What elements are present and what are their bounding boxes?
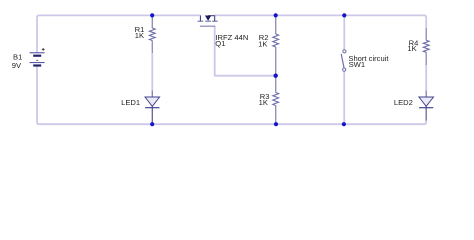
svg-text:LED2: LED2 bbox=[394, 98, 413, 107]
svg-text:9V: 9V bbox=[12, 61, 22, 70]
svg-text:B1: B1 bbox=[13, 53, 22, 62]
LED1 bbox=[145, 97, 160, 108]
wire R4 to LED2 bbox=[425, 65, 427, 91]
wire R1 bottom lead bbox=[151, 41, 153, 54]
wire LED1 cathode lead to bottom rail bbox=[151, 108, 153, 125]
switch SW1 bbox=[341, 50, 346, 71]
wire R3 bottom lead to bottom rail bbox=[275, 106, 277, 125]
wire R4 bottom lead bbox=[425, 52, 427, 65]
wire top-left rail from battery plus up and across to Q1 drain bbox=[37, 15, 200, 52]
wire R1 to LED1 bbox=[151, 53, 153, 91]
resistor R1 bbox=[149, 28, 155, 41]
node junction bottom rail at R3 bbox=[274, 122, 278, 126]
wire gate of Q1 down and over to R2/R3 node bbox=[215, 26, 276, 75]
resistor R3 bbox=[273, 93, 279, 106]
wire node to R3 top lead bbox=[275, 76, 277, 93]
wire R1 column: rail to R1 top bbox=[151, 15, 153, 28]
svg-text:Q1: Q1 bbox=[215, 39, 225, 48]
battery B1 bbox=[30, 48, 45, 66]
svg-text:1K: 1K bbox=[258, 39, 267, 48]
wire rail to SW1 top terminal bbox=[343, 15, 345, 49]
wire rail to R2 top lead bbox=[275, 15, 277, 34]
node junction top rail at SW1 bbox=[342, 13, 346, 17]
svg-text:LED1: LED1 bbox=[121, 98, 140, 107]
svg-text:SW1: SW1 bbox=[349, 60, 365, 69]
svg-text:1K: 1K bbox=[259, 98, 268, 107]
wire SW1 bottom terminal to bottom rail bbox=[343, 71, 345, 124]
wire LED2 cathode lead bbox=[425, 108, 427, 121]
wire R2 bottom lead to node bbox=[275, 47, 277, 76]
node junction gate R2/R3 bbox=[274, 74, 278, 78]
node junction top rail at R1 bbox=[150, 13, 154, 17]
resistor R4 bbox=[423, 40, 429, 52]
node junction bottom rail at SW1 bbox=[342, 122, 346, 126]
LED2 bbox=[419, 97, 434, 108]
svg-text:1K: 1K bbox=[407, 44, 416, 53]
wire R4 top lead bbox=[425, 28, 427, 40]
wire LED2 anode lead bbox=[425, 91, 427, 98]
wire LED1 anode lead bbox=[151, 91, 153, 98]
MOSFET Q1 IRFZ 44N bbox=[198, 15, 218, 26]
svg-text:1K: 1K bbox=[135, 31, 144, 40]
wire top rail from Q1 source to top-right corner down to R4 bbox=[215, 15, 427, 28]
wire bottom rail from battery minus around bottom to LED2 cathode bbox=[37, 66, 426, 124]
resistor R2 bbox=[273, 34, 279, 47]
node junction top rail at R2 bbox=[274, 13, 278, 17]
node junction bottom rail at LED1 bbox=[150, 122, 154, 126]
